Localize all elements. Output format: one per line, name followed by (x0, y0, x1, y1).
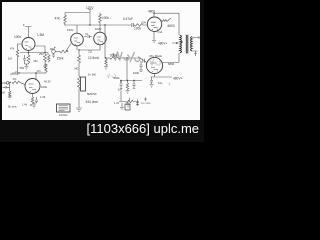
svg-text:*7mA: *7mA (156, 30, 163, 34)
bias bus (120, 80, 142, 82)
resistor cathode V2 (31, 97, 33, 103)
svg-text:1M: 1M (8, 57, 13, 61)
ground chain (76, 108, 82, 112)
ground V1 (25, 64, 29, 70)
wire plate V3 (76, 25, 78, 33)
resistor input CD (12, 81, 20, 84)
svg-text:100k: 100k (14, 35, 21, 39)
resistor R-grid V1 (16, 50, 19, 57)
cap to ground lower (139, 61, 143, 72)
wire plate V4 (99, 24, 101, 32)
tube V1 (22, 38, 35, 51)
cap CD to ground (3, 86, 10, 88)
svg-text:47k -: 47k - (55, 17, 62, 21)
cathode V2 (32, 94, 34, 98)
ground mid (126, 102, 130, 108)
resistor cathode chain (78, 55, 81, 64)
plate V2 up (20, 73, 36, 80)
tube V3 (71, 33, 84, 46)
svg-text:4800: 4800 (148, 9, 155, 13)
svg-text:47u Mask: 47u Mask (149, 54, 163, 58)
wire V5 plate (154, 13, 179, 17)
svg-text:40.3V: 40.3V (44, 80, 51, 84)
svg-text:0.47uF: 0.47uF (123, 17, 133, 21)
svg-text:MC: MC (75, 67, 79, 71)
ground grid leak (8, 96, 12, 99)
resistor 150k input (60, 50, 68, 53)
bias cap 2 (133, 81, 136, 89)
svg-text:344 ohm: 344 ohm (86, 100, 99, 104)
svg-text:1M: 1M (2, 91, 5, 95)
wire V1 cathode down (28, 51, 30, 56)
svg-text:10u: 10u (158, 81, 163, 85)
bias resistor (126, 81, 128, 91)
svg-text:480V+: 480V+ (158, 42, 167, 46)
svg-text:150k: 150k (57, 56, 64, 60)
wire V1 grid left (18, 44, 23, 50)
input jack CD (6, 82, 9, 85)
svg-text:0.1: 0.1 (85, 32, 89, 36)
svg-text:100k -: 100k - (102, 16, 111, 20)
svg-text:50V: 50V (142, 21, 147, 25)
resistor cathode V1 (27, 55, 30, 64)
resistor lower horiz (110, 57, 122, 60)
transformer primary coil (180, 35, 182, 53)
capacitor 0.47uF (132, 23, 134, 27)
svg-text:1.5M: 1.5M (37, 33, 44, 37)
svg-text:47n: 47n (10, 72, 15, 76)
resistor 500k grid leak (105, 58, 107, 66)
transformer secondary coil (191, 37, 193, 51)
svg-text:500k: 500k (110, 54, 117, 58)
bias network: vert from coupling (126, 58, 128, 81)
capacitor lower (143, 59, 145, 63)
wire B+ feed faint (65, 12, 90, 25)
grid leak resistor (9, 83, 11, 96)
feedback cap (136, 100, 139, 107)
svg-text:47k: 47k (10, 47, 15, 50)
svg-text:5MF/50: 5MF/50 (87, 92, 97, 96)
tube V5 power (147, 17, 161, 31)
junction dots (10, 13, 183, 83)
wire to V6 grid (144, 61, 147, 63)
cathode cap V6 (150, 77, 154, 88)
cap top left (12, 71, 20, 75)
transformer core (186, 35, 188, 54)
resistor divider A (44, 54, 47, 63)
svg-text:120k: 120k (134, 26, 141, 30)
tube V2 (25, 79, 40, 94)
junction down to lower network (104, 25, 106, 58)
svg-text:500k: 500k (114, 76, 121, 80)
svg-text:MIC: MIC (50, 47, 55, 51)
capacitor cathode V1 (23, 55, 26, 64)
svg-text:1.4V: 1.4V (114, 102, 119, 105)
resistor divider B (48, 55, 50, 63)
input jack MIC (52, 50, 56, 54)
bias grounds (126, 91, 130, 94)
svg-text:47u: 47u (37, 69, 42, 73)
output wires (192, 36, 199, 56)
svg-text:480V+: 480V+ (173, 76, 182, 80)
tube V6 power (146, 57, 162, 73)
wire to V3 grid (66, 44, 71, 52)
jack ground MIC (52, 53, 55, 57)
svg-text:7V: 7V (88, 50, 93, 54)
svg-text:1.4V: 1.4V (22, 104, 27, 107)
svg-text:6800: 6800 (168, 62, 175, 66)
wire plate V2 right (36, 72, 46, 74)
feedback ticks (130, 98, 148, 102)
wire V1 grid down (17, 57, 19, 72)
svg-text:160V: 160V (67, 28, 74, 32)
resistor in box (81, 77, 86, 91)
wire lower to V6 (122, 58, 144, 61)
ground V2 (32, 103, 36, 108)
cathode join wires (77, 45, 100, 55)
feedback resistor (126, 100, 139, 102)
feedback line (119, 91, 126, 102)
plate bus vertical (178, 13, 180, 62)
PSU box bottom (57, 104, 71, 112)
svg-text:250: 250 (39, 52, 44, 56)
capacitor cathode V2 (33, 97, 39, 103)
svg-text:6600: 6600 (168, 24, 175, 28)
node B+ 120V (88, 10, 92, 13)
wire to V2 (20, 82, 26, 85)
resistor 120k grid V5 (133, 24, 147, 27)
svg-text:5k rms: 5k rms (8, 105, 17, 109)
capacitor between V3 V4 (84, 35, 93, 38)
wire chain to ground (78, 92, 80, 108)
B+ arrow 480V (172, 42, 178, 44)
watermark squiggle (107, 52, 171, 86)
ground mid bottom (120, 103, 124, 109)
svg-text:25u: 25u (34, 60, 39, 63)
ground 500k (104, 67, 108, 70)
cathode V6 (151, 74, 173, 77)
wire bus under V1 (20, 53, 48, 56)
ground divider A (43, 63, 47, 69)
svg-text:1uF: 1uF (118, 88, 123, 92)
svg-text:100k: 100k (133, 71, 140, 75)
svg-text:12VAC: 12VAC (59, 113, 68, 117)
svg-text:12.6mA: 12.6mA (88, 56, 100, 60)
svg-text:1k 5W: 1k 5W (88, 73, 96, 77)
bias cap 1 (120, 81, 123, 89)
svg-text:CD: CD (2, 81, 6, 85)
resistor 47k plate V3 (64, 13, 67, 26)
svg-text:120V: 120V (86, 6, 94, 10)
svg-text:47k: 47k (13, 78, 18, 81)
svg-text:160V: 160V (95, 27, 102, 31)
coupling wire top (105, 24, 132, 26)
svg-text:560: 560 (20, 66, 25, 70)
tube V4 (94, 32, 107, 45)
screen resistor V5 (162, 18, 172, 21)
wire V6 plate (162, 62, 179, 64)
cathode wire V5 (152, 31, 156, 42)
svg-text:1w mask: 1w mask (141, 101, 152, 105)
wire V1 plate up (23, 24, 32, 37)
wire V1 plate right (35, 46, 45, 54)
lower coupling wire (105, 57, 110, 59)
svg-text:1.5k: 1.5k (40, 95, 46, 99)
svg-text:100k: 100k (41, 85, 48, 89)
wire plate bus (64, 24, 105, 26)
wire chain (78, 64, 80, 76)
resistor plate V2 (45, 64, 48, 74)
resistor 100k plate V4 (99, 13, 102, 25)
